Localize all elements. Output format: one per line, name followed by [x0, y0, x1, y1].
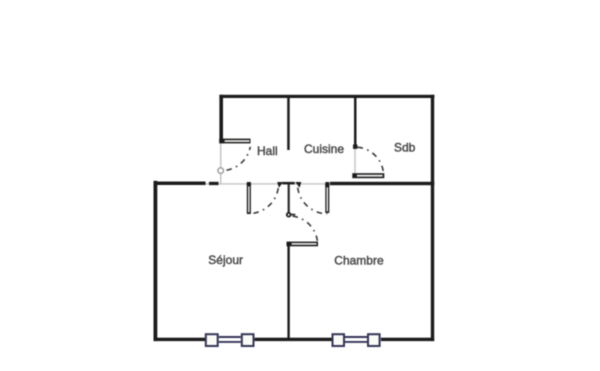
svg-text:Chambre: Chambre	[334, 254, 384, 268]
wall Sejour/Chambre lower	[287, 246, 289, 339]
middle wall left segment	[154, 182, 206, 186]
entry door gray ring	[218, 168, 224, 174]
window 2 right square	[368, 334, 380, 346]
sejour door arc	[249, 188, 278, 214]
svg-text:Cuisine: Cuisine	[304, 142, 344, 156]
sdb door gray jamb line	[354, 145, 355, 174]
window 2 glazing lines	[345, 336, 367, 338]
left wall	[154, 181, 158, 341]
center door leaf	[287, 242, 319, 247]
sejour door arrow marker	[277, 182, 283, 188]
svg-text:Hall: Hall	[257, 144, 278, 158]
marker connecting bar	[283, 182, 295, 185]
middle wall dash	[209, 182, 219, 185]
middle wall thin line	[206, 183, 331, 184]
upper-left wall (Hall west)	[219, 95, 223, 143]
entry door gray jamb line	[220, 142, 222, 183]
entry door leaf	[219, 139, 250, 144]
center door dash by ring	[291, 214, 295, 216]
bottom wall left segment	[154, 338, 206, 341]
chambre top door arc	[298, 188, 328, 214]
middle wall right segment	[330, 182, 434, 185]
sdb door arc	[358, 147, 384, 175]
entry door arc	[221, 147, 250, 171]
chambre top door leaf	[325, 182, 329, 213]
window 2 left square	[333, 334, 345, 346]
top wall	[219, 95, 434, 98]
svg-text:Séjour: Séjour	[208, 253, 243, 267]
right wall	[431, 95, 434, 341]
center door arc	[293, 216, 318, 244]
center door ring marker	[287, 213, 291, 217]
sdb door leaf	[352, 173, 384, 178]
bottom wall middle segment	[255, 338, 332, 341]
window 1 glazing lines	[219, 336, 241, 338]
bottom wall right segment	[381, 338, 434, 341]
wall Sejour/Chambre upper stub	[288, 184, 290, 214]
svg-text:Sdb: Sdb	[394, 141, 416, 155]
wall Hall/Cuisine	[287, 96, 290, 150]
sejour door leaf	[247, 182, 251, 214]
wall Cuisine/Sdb	[354, 96, 357, 145]
sdb door square marker	[353, 145, 357, 149]
window 1 right square	[242, 334, 254, 346]
chambre top door arrow marker	[295, 182, 301, 188]
window 1 left square	[206, 334, 218, 346]
